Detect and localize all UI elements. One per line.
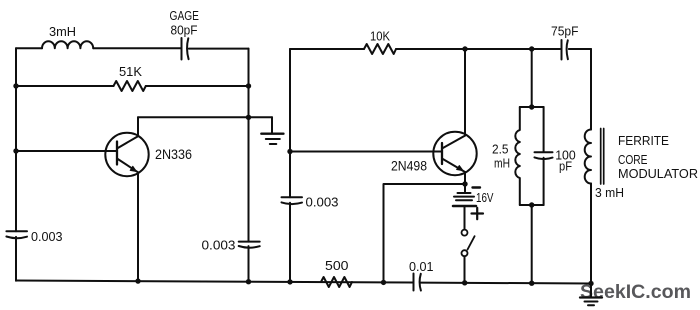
capacitor C2 0.003 left xyxy=(6,231,27,238)
svg-text:MODULATOR: MODULATOR xyxy=(618,166,698,181)
ground G1 xyxy=(261,117,283,144)
wire feedback loop emitter to bottom rail xyxy=(384,184,466,282)
svg-text:2.5: 2.5 xyxy=(492,142,509,157)
svg-text:0.003: 0.003 xyxy=(31,229,63,244)
wire base of Q2 xyxy=(290,151,442,153)
svg-text:3 mH: 3 mH xyxy=(595,185,624,200)
node junction base Q1 rail xyxy=(13,148,18,153)
svg-text:SeekIC.com: SeekIC.com xyxy=(580,281,691,303)
svg-text:2N336: 2N336 xyxy=(155,147,192,162)
node junction tank top row xyxy=(529,46,534,51)
node junction 51K right xyxy=(246,83,251,88)
svg-text:mH: mH xyxy=(494,156,510,171)
svg-text:CORE: CORE xyxy=(618,152,648,167)
svg-text:80pF: 80pF xyxy=(171,23,198,38)
node junction bottom right corner xyxy=(588,281,593,286)
svg-text:0.01: 0.01 xyxy=(409,259,434,274)
transformer T1 core xyxy=(601,129,604,185)
resistor R3 500 xyxy=(321,277,352,287)
svg-text:0.003: 0.003 xyxy=(202,238,236,253)
node junction base Q2 rail xyxy=(287,149,292,154)
wire collector Q1 up xyxy=(137,117,139,136)
node junction collector Q2 top row xyxy=(462,46,467,51)
node B tank bottom xyxy=(529,202,534,207)
svg-text:GAGE: GAGE xyxy=(170,8,200,23)
wire emitter Q1 down xyxy=(137,172,139,281)
capacitor C3 0.003 right of left section xyxy=(239,242,260,248)
transistor Q1 2N336 xyxy=(105,133,148,176)
inductor L1 3mH xyxy=(42,41,93,48)
node A tank top xyxy=(529,104,534,109)
svg-text:10K: 10K xyxy=(370,29,390,44)
svg-text:2N498: 2N498 xyxy=(391,159,427,174)
capacitor C6 100pF xyxy=(535,107,553,205)
svg-text:pF: pF xyxy=(559,159,572,174)
wire tank bottom bar xyxy=(520,204,544,206)
wire top middle row xyxy=(290,48,591,50)
minus sign of battery xyxy=(473,186,481,188)
battery B1 16V xyxy=(453,193,476,229)
wire right rail of left section xyxy=(248,49,250,282)
svg-text:75pF: 75pF xyxy=(551,24,579,39)
svg-text:FERRITE: FERRITE xyxy=(618,133,669,148)
node junction tank bottom rail xyxy=(529,281,534,286)
wire right rail xyxy=(590,49,592,284)
wire tank top bar xyxy=(520,106,544,108)
wire bottom rail xyxy=(16,281,591,284)
wire collector Q2 up xyxy=(464,49,466,136)
resistor R1 51K xyxy=(114,81,146,91)
transistor Q2 2N498 xyxy=(433,132,476,175)
node junction left section right rail bottom xyxy=(246,279,251,284)
wire collector row to ground xyxy=(138,116,272,118)
svg-text:500: 500 xyxy=(325,258,349,273)
transformer T1 primary coil xyxy=(585,130,591,184)
switch S1 xyxy=(462,230,475,283)
node junction collector row and right rail xyxy=(246,115,251,120)
plus sign of battery xyxy=(472,208,484,219)
node junction emitter Q2 xyxy=(462,181,467,186)
node junction 51K left xyxy=(13,83,18,88)
inductor L2 2.5mH xyxy=(515,107,519,205)
resistor R2 10K xyxy=(364,44,396,54)
wire emitter Q2 down xyxy=(464,172,466,192)
wire base of Q1 xyxy=(16,150,117,152)
capacitor C1 GAGE 80pF xyxy=(182,38,189,60)
svg-text:3mH: 3mH xyxy=(49,24,76,39)
wire left rail xyxy=(15,48,17,280)
capacitor C5 0.01 xyxy=(414,274,421,291)
node junction switch bottom rail xyxy=(462,280,467,285)
node junction emitter Q1 bottom rail xyxy=(135,278,140,283)
svg-text:51K: 51K xyxy=(119,64,142,79)
wire top left (node to L1 and C1) xyxy=(16,47,249,49)
svg-text:0.003: 0.003 xyxy=(306,195,339,210)
wire middle rail xyxy=(289,49,291,282)
wire tank stem bottom xyxy=(531,205,533,283)
capacitor C7 75pF xyxy=(562,40,568,60)
wire 51K row xyxy=(16,85,249,87)
node junction middle rail bottom xyxy=(287,279,292,284)
ground G2 bottom right xyxy=(580,284,602,306)
svg-text:16V: 16V xyxy=(476,190,494,205)
capacitor C4 0.003 middle rail xyxy=(282,197,303,204)
wire tank stem top xyxy=(531,49,533,107)
node junction feedback bottom rail xyxy=(381,280,386,285)
